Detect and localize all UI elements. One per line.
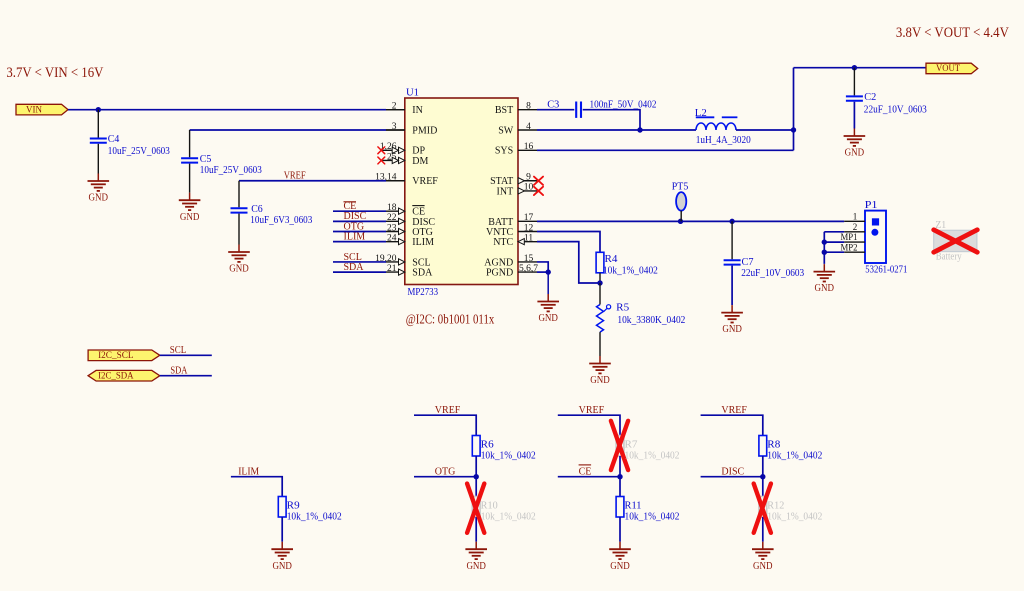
svg-text:17: 17 [524, 213, 534, 223]
svg-text:PT5: PT5 [672, 181, 689, 192]
svg-text:3.8V < VOUT < 4.4V: 3.8V < VOUT < 4.4V [896, 25, 1009, 41]
svg-text:C4: C4 [108, 134, 120, 145]
svg-text:R6: R6 [481, 439, 494, 450]
svg-text:MP2733: MP2733 [408, 287, 439, 298]
svg-text:22: 22 [387, 213, 397, 223]
svg-text:R9: R9 [287, 500, 300, 511]
svg-text:SCL: SCL [170, 345, 187, 356]
svg-text:22uF_10V_0603: 22uF_10V_0603 [864, 104, 927, 115]
svg-text:R8: R8 [767, 439, 780, 450]
svg-text:VREF: VREF [579, 405, 605, 416]
svg-text:VREF: VREF [721, 405, 747, 416]
svg-text:Battery: Battery [936, 251, 962, 262]
svg-text:1uH_4A_3020: 1uH_4A_3020 [696, 135, 751, 146]
svg-text:10uF_25V_0603: 10uF_25V_0603 [200, 165, 262, 176]
svg-text:ILIM: ILIM [412, 237, 434, 248]
svg-text:L2: L2 [695, 108, 707, 119]
svg-text:GND: GND [538, 313, 558, 324]
svg-text:10uF_6V3_0603: 10uF_6V3_0603 [250, 215, 312, 226]
svg-text:R11: R11 [625, 500, 642, 511]
svg-text:10k_1%_0402: 10k_1%_0402 [287, 512, 342, 523]
svg-text:GND: GND [180, 212, 200, 223]
svg-text:22uF_10V_0603: 22uF_10V_0603 [741, 268, 804, 279]
svg-text:GND: GND [590, 375, 610, 386]
svg-text:CE: CE [579, 466, 592, 477]
svg-text:OTG: OTG [435, 466, 456, 477]
svg-text:10k_1%_0402: 10k_1%_0402 [481, 512, 536, 523]
svg-text:MP2: MP2 [841, 242, 858, 252]
svg-text:C3: C3 [547, 100, 559, 111]
svg-text:GND: GND [272, 561, 292, 572]
svg-text:C6: C6 [251, 204, 263, 215]
svg-text:MP1: MP1 [841, 232, 858, 242]
svg-text:18: 18 [387, 203, 397, 213]
svg-text:R7: R7 [625, 439, 638, 450]
svg-text:P1: P1 [865, 200, 878, 211]
svg-text:INT: INT [497, 186, 514, 197]
svg-text:SDA: SDA [170, 366, 188, 377]
svg-text:GND: GND [610, 561, 630, 572]
svg-text:VIN: VIN [26, 104, 42, 114]
svg-text:C7: C7 [742, 257, 754, 268]
svg-text:R12: R12 [767, 500, 784, 511]
svg-text:9: 9 [526, 173, 531, 183]
svg-text:SYS: SYS [495, 146, 513, 157]
svg-text:PGND: PGND [486, 268, 513, 279]
svg-text:VREF: VREF [412, 176, 438, 187]
svg-text:23: 23 [387, 223, 397, 233]
svg-text:SDA: SDA [344, 262, 365, 273]
svg-text:DM: DM [412, 156, 428, 167]
svg-text:15: 15 [524, 254, 534, 264]
svg-text:10k_1%_0402: 10k_1%_0402 [767, 512, 822, 523]
svg-text:BST: BST [495, 105, 513, 116]
svg-text:GND: GND [229, 264, 249, 275]
svg-text:11: 11 [524, 233, 533, 243]
svg-text:4: 4 [526, 122, 531, 132]
svg-text:GND: GND [466, 561, 486, 572]
svg-text:10k_1%_0402: 10k_1%_0402 [625, 512, 680, 523]
svg-text:16: 16 [524, 142, 534, 152]
svg-text:NTC: NTC [493, 237, 513, 248]
svg-text:R4: R4 [605, 254, 618, 265]
svg-text:8: 8 [526, 102, 531, 112]
svg-text:R5: R5 [616, 302, 629, 313]
svg-text:PMID: PMID [412, 125, 437, 136]
svg-text:ILIM: ILIM [344, 231, 366, 242]
svg-text:53261-0271: 53261-0271 [865, 264, 907, 275]
svg-text:24: 24 [387, 233, 397, 243]
svg-text:GND: GND [89, 193, 109, 204]
svg-text:R10: R10 [481, 500, 498, 511]
svg-text:10: 10 [524, 183, 534, 193]
svg-text:IN: IN [412, 105, 423, 116]
svg-text:ILIM: ILIM [238, 466, 259, 477]
svg-text:GND: GND [722, 324, 742, 335]
svg-text:GND: GND [753, 561, 773, 572]
svg-text:VREF: VREF [435, 405, 461, 416]
svg-text:10k_1%_0402: 10k_1%_0402 [603, 266, 658, 277]
svg-text:10uF_25V_0603: 10uF_25V_0603 [108, 146, 170, 157]
svg-text:SW: SW [498, 125, 514, 136]
svg-text:I2C_SDA: I2C_SDA [98, 370, 134, 380]
svg-text:10k_3380K_0402: 10k_3380K_0402 [617, 315, 685, 326]
svg-text:10k_1%_0402: 10k_1%_0402 [625, 451, 680, 462]
svg-text:GND: GND [815, 283, 835, 294]
svg-text:2: 2 [853, 222, 858, 232]
svg-text:5,6,7: 5,6,7 [519, 264, 538, 274]
svg-text:C5: C5 [200, 154, 212, 165]
svg-text:1: 1 [853, 211, 858, 221]
svg-text:12: 12 [524, 223, 534, 233]
svg-text:SDA: SDA [412, 268, 433, 279]
svg-text:GND: GND [845, 148, 865, 159]
svg-text:U1: U1 [406, 88, 419, 99]
svg-text:@I2C: 0b1001 011x: @I2C: 0b1001 011x [406, 311, 495, 326]
svg-text:DISC: DISC [721, 466, 744, 477]
svg-text:10k_1%_0402: 10k_1%_0402 [481, 451, 536, 462]
svg-text:10k_1%_0402: 10k_1%_0402 [767, 451, 822, 462]
svg-text:21: 21 [387, 264, 397, 274]
svg-text:I2C_SCL: I2C_SCL [98, 350, 134, 360]
svg-text:3.7V < VIN < 16V: 3.7V < VIN < 16V [6, 65, 103, 81]
svg-text:VOUT: VOUT [936, 63, 960, 73]
svg-text:C2: C2 [864, 92, 876, 103]
svg-text:100nF_50V_0402: 100nF_50V_0402 [590, 100, 657, 111]
svg-text:VREF: VREF [284, 170, 306, 181]
